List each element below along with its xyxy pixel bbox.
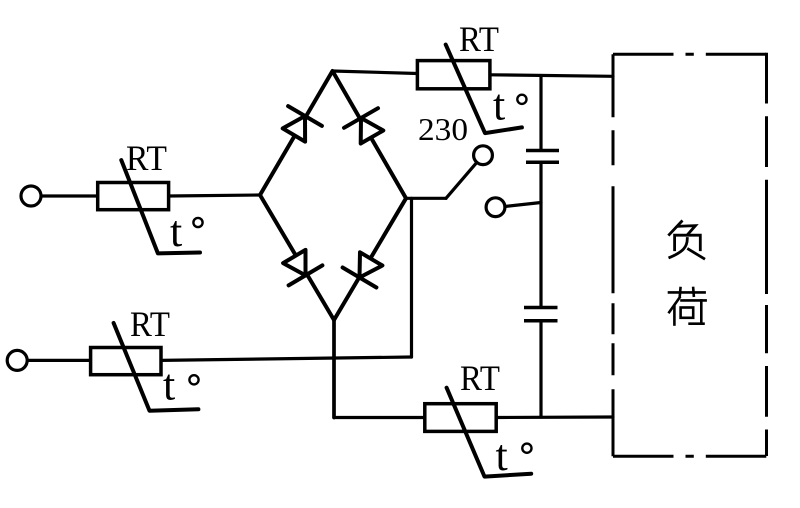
svg-text:RT: RT [126, 138, 167, 178]
svg-text:RT: RT [460, 358, 500, 398]
svg-text:t: t [163, 361, 175, 410]
svg-text:RT: RT [130, 304, 170, 344]
svg-text:t: t [493, 81, 505, 130]
svg-text:RT: RT [459, 19, 499, 59]
svg-text:t: t [496, 431, 508, 480]
svg-text:230: 230 [418, 111, 468, 147]
svg-text:t: t [170, 207, 182, 256]
